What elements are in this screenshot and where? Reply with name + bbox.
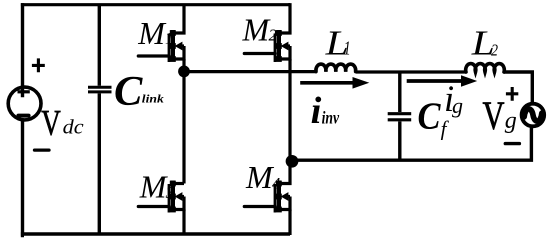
polarity minus of Vdc	[35, 148, 50, 151]
arrow i_g	[407, 79, 463, 83]
svg-text:C: C	[418, 95, 442, 137]
transistor M1 contact pads	[170, 30, 176, 36]
transistor M3 source/body tie	[173, 197, 184, 210]
transistor M3 gate bar	[168, 184, 171, 213]
svg-text:C: C	[114, 68, 143, 115]
svg-text:V: V	[41, 102, 61, 142]
transistor M4 drain lead	[279, 161, 290, 184]
transistor M4 source lead	[288, 210, 291, 236]
wire: left branch top (Vdc positive lead)	[21, 3, 24, 97]
polarity plus of Vg	[506, 87, 518, 101]
transistor M3 drain lead	[173, 182, 184, 185]
transistor M3 gate lead	[138, 205, 169, 208]
svg-text:dc: dc	[63, 117, 84, 138]
svg-text:M: M	[139, 168, 169, 204]
transistor M1 channel bar	[171, 30, 175, 62]
svg-text:V: V	[483, 93, 505, 138]
svg-text:1: 1	[344, 37, 351, 59]
source Vg sine symbol	[524, 109, 542, 121]
wire: L1 to L2 (through Cf tap)	[356, 70, 466, 73]
svg-text:4: 4	[272, 174, 280, 193]
wire: Cf branch upper	[398, 72, 401, 112]
transistor M2 source lead	[288, 59, 291, 161]
transistor M1 gate bar	[168, 34, 171, 63]
polarity minus of Vg	[505, 142, 519, 145]
transistor M4 gate lead	[244, 205, 275, 208]
capacitor C_link plates	[88, 87, 112, 92]
svg-text:inv: inv	[322, 108, 340, 128]
transistor M4 body-diode arrow	[286, 195, 290, 198]
wire: left leg middle	[182, 71, 185, 183]
transistor M4 channel bar	[277, 181, 281, 213]
arrow i_inv	[300, 81, 354, 85]
wire: L2 to grid source	[504, 72, 532, 102]
svg-text:2: 2	[491, 40, 498, 59]
transistor M4 source/body tie	[279, 197, 290, 210]
wire: left branch bottom (Vdc negative lead)	[23, 120, 25, 236]
svg-text:2: 2	[269, 26, 277, 45]
transistor M1 body-diode arrow	[180, 44, 184, 47]
svg-text:i: i	[311, 90, 322, 132]
transistor M2 source/body tie	[279, 46, 290, 59]
wire: grid source to bottom output wire	[291, 126, 531, 160]
wire: bottom DC rail	[21, 232, 290, 235]
transistor M3 contact pads	[170, 181, 176, 187]
transistor M2 gate bar	[274, 34, 277, 63]
transistor M1 gate lead	[138, 54, 169, 57]
polarity plus of Vdc	[32, 58, 45, 72]
wire: Cf branch lower	[398, 122, 401, 161]
transistor M2 channel bar	[277, 30, 281, 62]
wire: C_link branch lower	[98, 93, 101, 234]
inductor L1	[316, 64, 356, 72]
svg-text:M: M	[137, 15, 167, 51]
transistor M2 body-diode arrow	[286, 44, 290, 47]
wire: C_link branch upper	[98, 5, 101, 86]
svg-text:1: 1	[165, 28, 173, 47]
transistor M3 channel bar	[171, 181, 175, 213]
wire: node a to L1	[184, 70, 317, 73]
svg-text:M: M	[242, 12, 272, 48]
node: inverter output b (junction dot)	[286, 155, 299, 168]
transistor M4 gate bar	[274, 184, 277, 213]
transistor M1 drain lead	[173, 5, 184, 33]
transistor M1 source lead	[182, 59, 185, 71]
svg-text:g: g	[505, 108, 517, 134]
source Vg circle	[522, 104, 545, 127]
transistor M3 source lead	[182, 210, 185, 236]
inductor L2	[466, 64, 505, 72]
wire: right leg top corner	[288, 3, 290, 6]
transistor M3 body-diode arrow	[180, 195, 184, 198]
node: inverter output a (junction dot)	[178, 66, 190, 78]
svg-text:link: link	[142, 92, 164, 106]
transistor M1 source/body tie	[173, 46, 184, 59]
wire: top DC rail	[21, 3, 290, 6]
svg-text:g: g	[452, 93, 463, 118]
transistor M2 gate lead	[244, 52, 275, 55]
svg-text:3: 3	[165, 183, 174, 202]
transistor M2 contact pads	[276, 30, 282, 36]
transistor M4 contact pads	[276, 181, 282, 187]
svg-text:M: M	[245, 159, 275, 195]
source Vdc internal plus	[18, 90, 30, 93]
transistor M2 drain lead	[279, 3, 290, 33]
source Vdc circle	[8, 87, 41, 120]
capacitor Cf plates	[388, 114, 412, 120]
source Vdc internal minus	[18, 114, 28, 118]
